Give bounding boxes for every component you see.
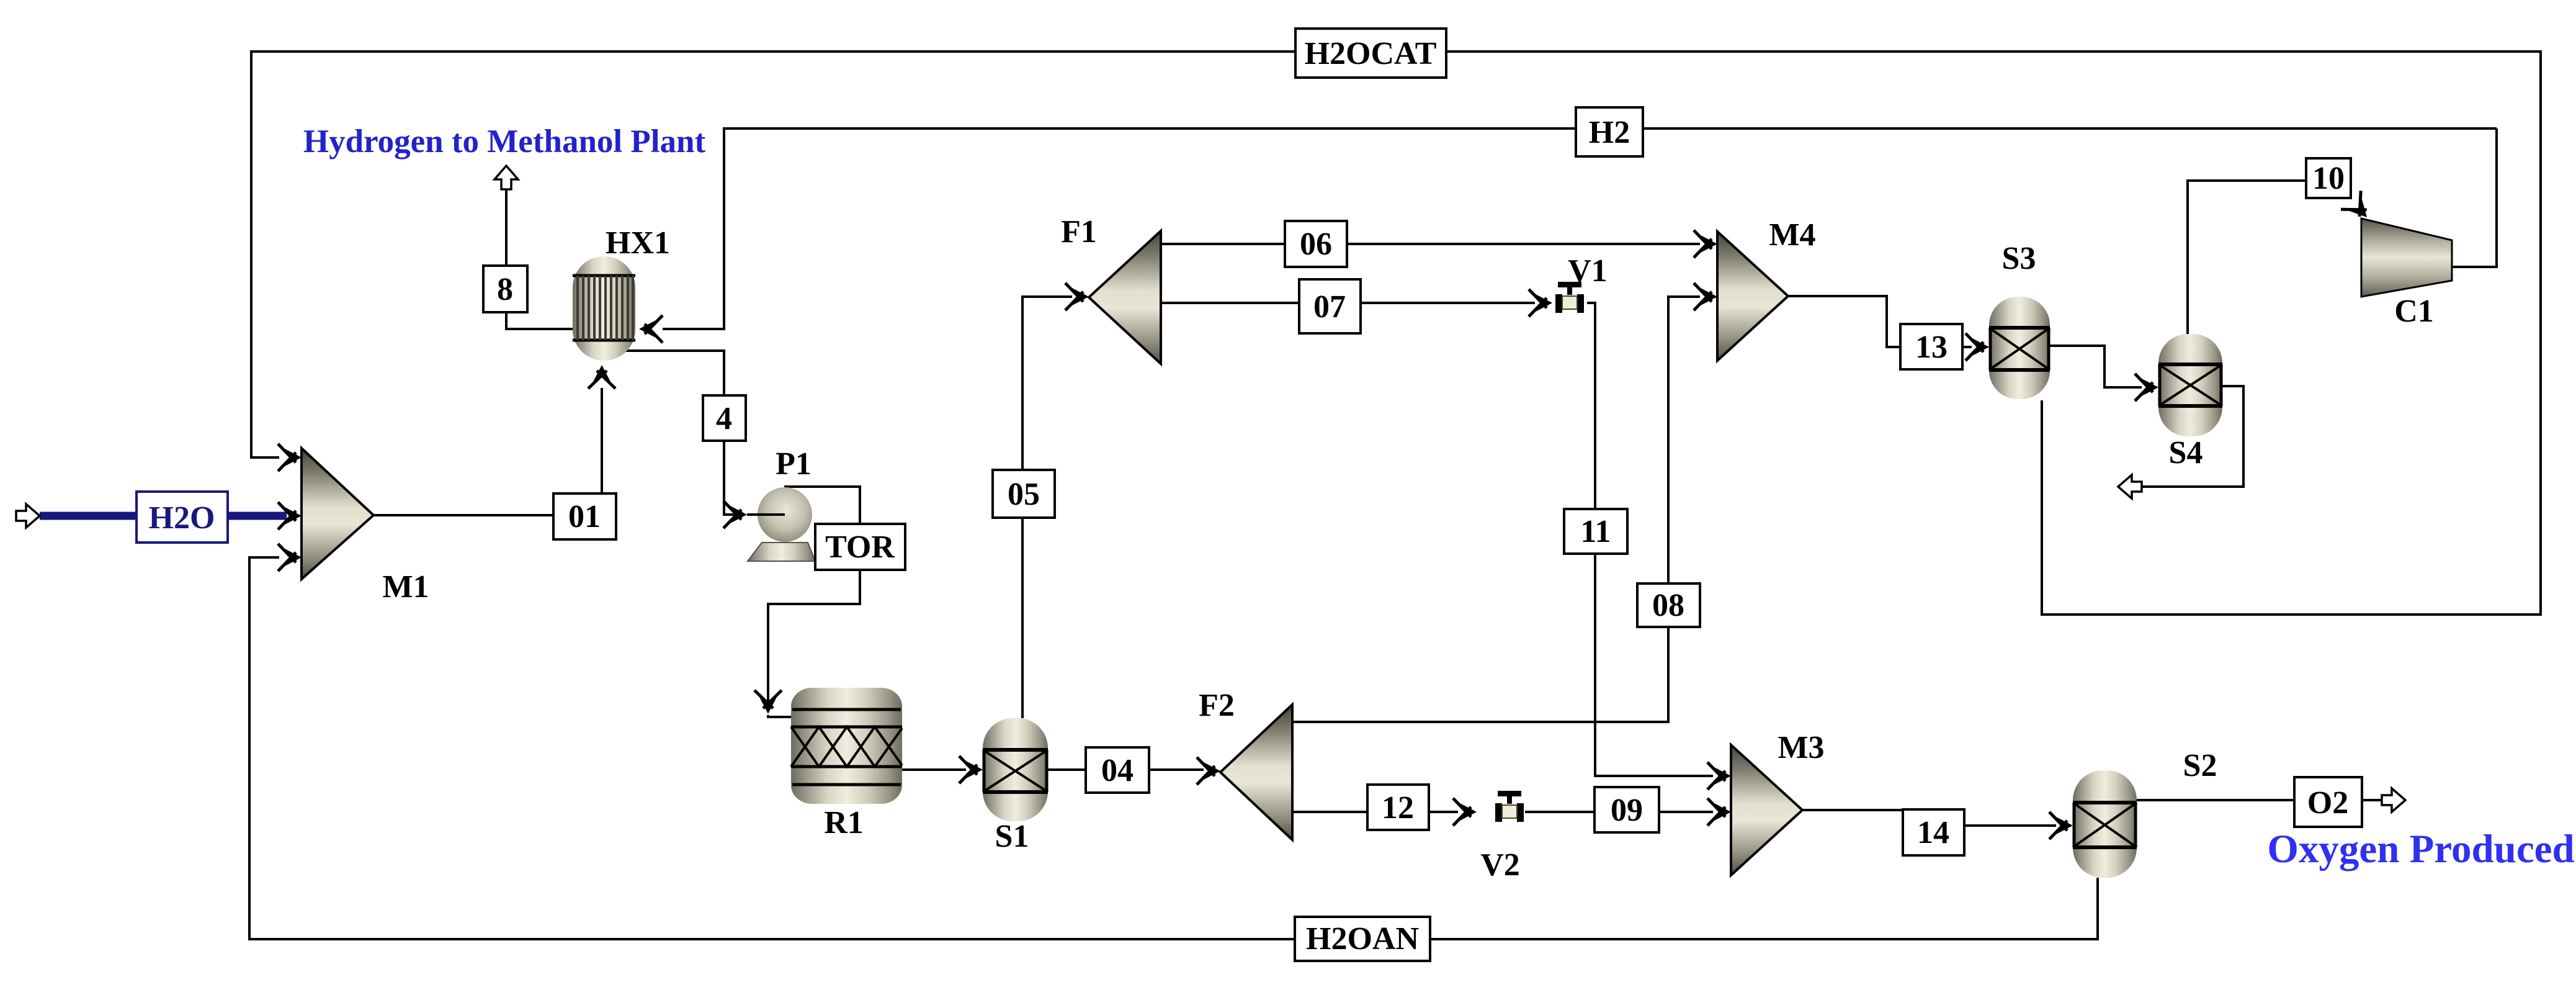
svg-text:04: 04 [1101,753,1134,788]
svg-text:M3: M3 [1778,730,1824,765]
hollow arrow O2 product [2382,788,2405,812]
svg-text:F2: F2 [1199,688,1235,723]
arrow into M4 top [1694,230,1717,258]
separator S4 [2158,334,2222,436]
svg-text:08: 08 [1652,588,1684,623]
arrow into M4 second [1694,283,1717,310]
svg-text:M4: M4 [1769,217,1815,253]
svg-text:S3: S3 [2002,241,2036,276]
valve V2 [1495,791,1524,822]
node H2OAN [1295,917,1430,961]
flash F1 [1089,231,1161,364]
svg-text:11: 11 [1580,514,1611,549]
svg-text:V2: V2 [1480,847,1520,883]
node 8 [483,266,527,312]
svg-text:F1: F1 [1061,214,1097,250]
wire stream 12 (F2 bottom out to valve V2) [1292,811,1458,813]
svg-text:05: 05 [1008,477,1040,512]
node 05 [993,470,1055,518]
arrow into S1 [959,756,983,783]
wire stream 14 (M3 outlet to S2) [1802,810,2056,826]
arrow into V1 [1529,289,1552,317]
svg-text:V1: V1 [1568,253,1608,289]
wire R1 outlet to S1 [902,768,966,771]
arrow into S3 [1966,333,1989,361]
wire P1 outlet via TOR label to R1 [784,487,860,526]
node O2 [2294,777,2362,827]
mixer M3 [1731,745,1802,875]
wire S4 liquid purge to hollow arrow [2142,386,2243,487]
svg-text:H2O: H2O [149,500,215,536]
wire stream 10 (S4 top to C1 inlet) [2188,181,2306,334]
node 07 [1299,279,1361,333]
wire stream 05 (S1 top to F1) [1022,297,1072,718]
arrow into C1 (diagonal) [2341,191,2377,227]
heat exchanger HX1 [573,256,635,361]
node TOR [815,524,905,570]
mixer M4 [1717,232,1788,361]
svg-text:Hydrogen to Methanol Plant: Hydrogen to Methanol Plant [303,124,706,160]
svg-text:14: 14 [1917,815,1949,850]
compressor C1 [2361,218,2452,297]
arrow into V2 [1453,798,1477,826]
arrow into R1 (down) [754,690,782,714]
wire stream 07 (F1 to valve V1) [1161,302,1535,304]
hollow arrow hydrogen product (up) [494,166,518,189]
svg-text:8: 8 [497,272,513,307]
svg-text:S1: S1 [995,819,1029,854]
svg-text:13: 13 [1915,330,1948,365]
arrow into HX1 right [639,315,663,343]
svg-text:06: 06 [1300,227,1332,262]
svg-text:09: 09 [1611,793,1643,828]
arrow into F2 [1197,757,1220,785]
svg-text:01: 01 [568,499,601,534]
wire stream 09 (V2 to M3 bottom inlet) [1525,811,1713,813]
arrow into M3 bottom [1707,798,1731,826]
node H2 [1576,107,1643,156]
svg-text:S2: S2 [2183,748,2217,783]
flash F2 [1220,705,1292,840]
wire H2OCAT recycle loop (S3 bottom to top line to M1) [251,52,2541,615]
arrow into M1 top [278,444,302,471]
svg-text:P1: P1 [776,446,812,482]
svg-text:07: 07 [1313,289,1346,325]
wire stream 8 (HX1 to hydrogen product arrow) [506,186,573,329]
mixer M1 [302,448,373,579]
svg-text:R1: R1 [824,805,864,840]
wire H2O feed (thick blue) [40,512,138,520]
svg-text:H2: H2 [1589,115,1630,150]
node 13 [1900,324,1962,369]
node 10 [2306,158,2351,198]
arrow into HX1 bottom [588,365,615,389]
arrow into F1 [1065,283,1089,310]
wire C1 outlet up to H2 line [2452,128,2497,267]
arrow into M1 middle [278,502,302,529]
node H2OCAT [1295,29,1446,78]
wire stream 04 (S1 to F2) [1048,768,1204,771]
wire R1 feed elbow [768,715,791,717]
arrow into P1 [723,501,747,528]
svg-text:O2: O2 [2307,785,2348,821]
svg-text:12: 12 [1382,790,1414,826]
node 08 [1637,583,1700,627]
reactor R1 [791,688,902,804]
wire stream 08 (F2 top out up to M4 second inlet) [1292,297,1700,722]
arrow into S2 [2049,812,2073,839]
svg-text:Oxygen Produced: Oxygen Produced [2267,827,2574,872]
svg-text:C1: C1 [2394,294,2434,329]
node 04 [1086,747,1149,793]
node 12 [1367,785,1429,830]
separator S1 [983,718,1048,821]
wire stream 06 (F1 top to M4) [1161,243,1700,245]
node 09 [1594,787,1659,832]
wire stream 13 (M4 outlet to S3) [1788,296,1972,347]
wire stream 01 (M1 to HX1 cold inlet) [373,388,602,515]
wire H2OAN recycle loop (S2 bottom to M1) [249,557,2098,939]
hollow arrow S4 purge (left) [2118,475,2142,498]
wire P1 inlet stub into pump center [759,513,785,516]
svg-text:10: 10 [2312,161,2345,196]
node H2O feed label [136,492,228,543]
separator S2 [2073,770,2137,878]
separator S3 [1989,297,2050,399]
node 11 [1564,509,1627,554]
svg-text:M1: M1 [382,569,429,605]
node 01 [553,493,616,539]
wire stream 4 (HX1 outlet down to P1) [622,351,742,515]
arrow into M1 bottom [278,544,302,571]
svg-text:4: 4 [716,401,732,436]
wire stream 11 (V1 to M3 top inlet) [1587,303,1713,776]
node 4 [703,395,746,441]
valve V1 [1555,282,1584,313]
svg-text:H2OCAT: H2OCAT [1305,36,1437,71]
wire stream H2 (C1 outlet to HX1 hot inlet) [663,128,2497,329]
svg-text:H2OAN: H2OAN [1306,921,1419,957]
arrow into M3 top [1707,762,1731,790]
node 06 [1285,221,1347,267]
arrow into S4 [2135,374,2158,401]
svg-text:TOR: TOR [825,529,895,565]
hollow arrow H2O feed [16,504,40,528]
wire stream O2 (S2 to O2 product) [2137,799,2296,801]
wire S3 outlet to S4 [2050,346,2142,387]
svg-text:S4: S4 [2169,435,2203,471]
svg-text:HX1: HX1 [606,225,670,261]
node 14 [1903,809,1964,855]
pump P1 [747,487,815,561]
